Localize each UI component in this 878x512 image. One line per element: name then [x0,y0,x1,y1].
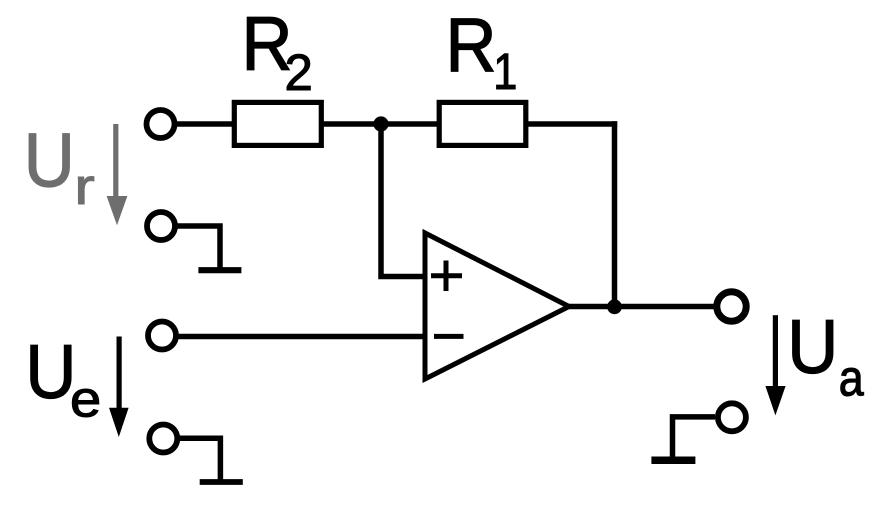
svg-text:R: R [446,3,497,88]
svg-text:r: r [74,158,94,215]
terminal T4 (Ur ground) [147,212,175,240]
terminal T3 (Ue input) [148,322,176,350]
wire T6 to ground [673,417,716,458]
wire T4 to ground [177,226,220,270]
svg-text:U: U [25,330,76,415]
terminal T2 (Ua output) [717,292,746,321]
resistor R2 [234,102,321,145]
wire node A down to + input [381,124,426,277]
arrow Ur (gray) [107,124,128,225]
arrow Ua [765,315,785,415]
terminal T5 (Ue ground) [149,425,177,453]
terminal T6 (Ua ground) [718,403,746,431]
svg-text:2: 2 [285,44,313,101]
wire feedback vertical [612,121,618,306]
ground (Ur) [198,267,241,273]
wire R1 to feedback corner [526,121,617,127]
junction node A (R2/R1 tap) [373,116,388,131]
svg-text:1: 1 [493,44,517,101]
plus sign (non-inverting input) [431,261,462,292]
junction node output [607,299,622,314]
wire op-amp output [567,304,714,310]
ground (Ua) [651,457,695,465]
resistor R1 [439,102,526,145]
wire T3 to op-amp minus input [178,334,425,340]
svg-text:U: U [24,118,75,203]
ground (Ue) [200,479,243,485]
terminal T1 (Ur input) [147,110,175,138]
minus sign (inverting input) [434,334,464,339]
wire T1 to R2 [176,121,234,127]
wire R2 to R1 [321,121,439,127]
op-amp U1 [425,233,569,379]
wire T5 to ground [179,438,220,482]
svg-text:a: a [839,351,864,407]
svg-text:U: U [787,305,838,390]
svg-text:e: e [70,371,101,428]
arrow Ue [109,337,129,438]
